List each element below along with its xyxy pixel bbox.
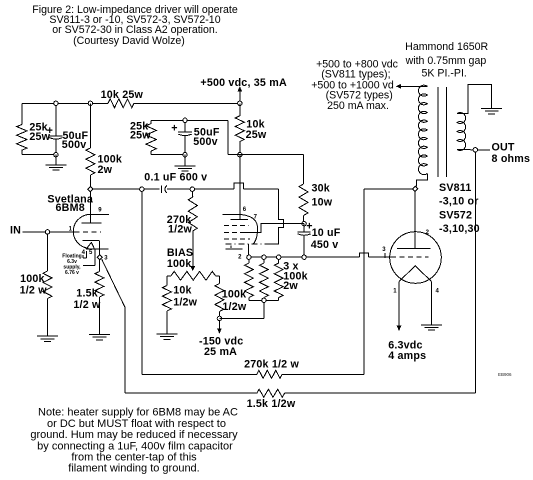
resistor 100k 2w b [263,259,265,263]
svg-text:100k: 100k [20,273,45,285]
pentode g2 dashes [224,231,245,233]
wire grid drop with jog [270,189,284,244]
node cap2 bottom [183,153,187,157]
svg-text:2w: 2w [283,280,298,292]
wire feedback left vertical [141,191,143,374]
triode grid dashes [75,231,101,233]
ground under 50uF mid [184,155,186,166]
node bias feed [190,187,194,191]
wire 3x100k bottom [249,299,279,301]
svg-text:1.5k 1/2w: 1.5k 1/2w [247,398,296,410]
capacitor 50uF 500v (left) [55,103,57,135]
svg-text:100k: 100k [222,289,247,301]
resistor 10k 1/2w [166,276,168,286]
svg-text:1.5k: 1.5k [76,287,98,299]
triode plate bar [81,222,101,224]
resistor 10k 25w horizontal [108,99,134,108]
resistor 100k 2w [89,103,91,148]
svg-text:+500 vdc, 35 mA: +500 vdc, 35 mA [200,77,287,89]
svg-text:500v: 500v [62,139,87,151]
resistor 1.5k 1/2w feedback [257,389,285,397]
resistor 270k 1/2w (bias feed) [191,191,194,197]
transformer secondary coil [457,113,466,151]
resistor 100k 1/2w (input) [47,234,49,271]
node cap1 bottom [54,153,58,157]
svg-text:+: + [171,122,177,134]
wire +500 rail right [134,102,240,104]
SV811 plate bar [397,248,430,250]
resistor 100k 2w c [278,259,280,263]
svg-text:from the center-tap of this: from the center-tap of this [71,452,197,464]
wire cathode row [249,256,359,258]
node feedback drop [140,187,144,191]
wire plate row right [364,188,413,190]
node row 4 [302,255,306,259]
svg-text:SV572: SV572 [439,209,472,221]
svg-text:Note: heater supply for 6BM8 m: Note: heater supply for 6BM8 may be AC [38,407,238,419]
svg-text:0.1 uF 600 v: 0.1 uF 600 v [144,171,207,183]
svg-text:BIAS: BIAS [167,247,193,259]
svg-text:ground. Hum may be reduced if: ground. Hum may be reduced if necessary [30,429,238,441]
svg-text:by connecting a 1uF, 400v film: by connecting a 1uF, 400v film capacitor [37,440,233,452]
node cap1 top [54,101,58,105]
node SV811 plate [413,186,418,191]
primary feed arrow [396,84,402,89]
wire +500 rail left [22,102,108,104]
node 3x100k bottom [262,298,266,302]
heater pin 4 lead [85,251,87,258]
ground under 1.5k [89,334,110,336]
triode envelope arc [73,214,92,248]
ground under 10k [156,333,177,335]
wire hop to SV811 grid [368,256,391,258]
node rail-R1 [54,101,58,105]
node row 2 [262,255,266,259]
svg-text:2: 2 [238,254,242,260]
ground under 50uF left [55,155,57,165]
pentode g1 dashes [224,224,248,226]
transformer primary coil [418,85,427,174]
wire 270k to wiper arrow [192,231,194,268]
wire 25k mid bottom [151,154,185,156]
svg-text:1/2 w: 1/2 w [73,299,101,311]
svg-text:6.76 v: 6.76 v [65,270,79,276]
svg-text:1/2w: 1/2w [168,224,192,236]
node 10uF top [302,222,306,226]
ground secondary [481,107,502,109]
svg-text:1/2w: 1/2w [222,301,246,313]
node row 3 [277,255,281,259]
svg-text:500v: 500v [193,136,218,148]
svg-text:5: 5 [89,250,93,256]
primary bottom lead [416,174,427,187]
capacitor 10uF 450v [303,224,305,232]
node row 1 [247,255,251,259]
resistor 10k 25w (vertical) [239,103,241,116]
svg-text:100k: 100k [167,258,192,270]
pentode bottom cut dash-dot [225,243,270,245]
node rail-+500 [238,101,242,105]
wire hop over feedback vertical [359,253,368,257]
svg-text:10 uF: 10 uF [312,227,341,239]
svg-text:3: 3 [104,256,108,262]
pentode envelope top cut [222,214,242,216]
svg-text:4: 4 [82,250,86,256]
wire feedback right vertical [363,189,365,374]
svg-text:5K PI.-PI.: 5K PI.-PI. [422,67,467,79]
svg-text:250 mA max.: 250 mA max. [327,100,389,112]
triode envelope top cut [89,213,109,215]
pentode g3 dashes [224,238,250,240]
pentode cathode lead pin2 [248,244,250,255]
SV811 grid dashes [391,256,429,258]
pentode plate lead pin6 [239,155,241,220]
wire cathode diagonal to output row [102,259,125,307]
triode cathode lead pin3 [98,241,100,255]
svg-text:6BM8: 6BM8 [56,202,85,214]
wire 270k row right [282,373,364,375]
SV811 filament pin4 lead [431,282,433,325]
pentode g2 lead to bypass [245,223,304,232]
wire hop over pin6 [234,183,243,189]
resistor 1.5k 1/2w (cathode) [98,260,100,272]
node OUT [473,148,477,152]
node -150 junction [217,316,221,320]
node triode plate junction [88,187,93,192]
SV811 filament pin1 lead + 6.3v arrow [398,282,400,328]
node cap2 top [183,118,187,122]
resistor 25k 25w (left bleeder) [21,103,23,124]
svg-text:2w: 2w [98,164,113,176]
svg-text:6: 6 [243,207,247,213]
resistor 30k 10w [303,155,305,184]
svg-text:270k 1/2 w: 270k 1/2 w [244,358,299,370]
wire output feedback vertical [474,152,476,393]
svg-text:3: 3 [382,247,386,253]
wire cap to hop [167,188,234,190]
pentode plate bar [231,218,248,220]
svg-text:8 ohms: 8 ohms [492,153,531,165]
resistor 25k 25w (mid) [150,120,152,123]
svg-text:7: 7 [254,214,258,220]
svg-text:25w: 25w [246,129,267,141]
svg-text:IN: IN [10,224,21,236]
wire OUT stub [478,149,491,151]
wire -150 node to 3x100k [219,317,264,319]
+500 vdc supply arrow [239,90,241,102]
node cathode pin3 [97,255,102,260]
svg-text:25 mA: 25 mA [204,346,237,358]
wire IN [22,231,74,233]
wire mid block top [151,119,228,121]
svg-text:EB906: EB906 [498,372,512,377]
svg-text:-3,10 or: -3,10 or [439,196,479,208]
ground under input 100k [37,335,58,337]
wire 1.5k row left [125,392,257,394]
wire 1.5k row right [285,392,476,394]
-150 vdc supply arrow [218,321,220,331]
svg-text:with 0.75mm gap: with 0.75mm gap [405,55,487,67]
wire 25k bottom to cap [22,154,56,156]
SV811 filament [399,266,432,282]
wire 270k row left [142,373,257,375]
secondary bottom lead [457,149,473,151]
svg-text:30k: 30k [312,183,330,195]
SV811 grid tick [384,253,386,258]
resistor 100k 2w a [248,259,250,263]
resistor 100k 1/2w (to -150) [218,276,220,284]
svg-text:-3,10,30: -3,10,30 [439,223,480,235]
resistor 270k 1/2w feedback [257,370,282,378]
svg-text:SV811: SV811 [439,182,472,194]
svg-text:10w: 10w [312,197,333,209]
pentode envelope arc [242,215,258,244]
node IN [45,230,49,234]
capacitor 0.1uF 600v [160,185,162,193]
node 10k bottom [238,153,242,157]
svg-text:OUT: OUT [492,141,515,153]
node rail-R2 [88,101,92,105]
wire hop to grid drop [243,188,278,190]
wire plate to cap 0.1uF [93,188,160,190]
svg-text:1/2 w: 1/2 w [20,285,48,297]
triode plate lead pin9 [90,191,92,222]
SV811 plate lead [414,192,416,249]
capacitor 50uF 500v (mid) [184,120,186,132]
svg-text:10k: 10k [173,284,191,296]
svg-text:4: 4 [436,289,440,295]
svg-text:1: 1 [393,289,397,295]
svg-text:(Courtesy David Wolze): (Courtesy David Wolze) [73,35,185,47]
svg-text:1/2w: 1/2w [173,296,197,308]
triode cathode [82,240,99,242]
svg-text:+: + [47,125,53,137]
pentode cathode [225,248,242,250]
SV811 envelope circle [390,232,442,284]
svg-text:10k 25w: 10k 25w [101,89,144,101]
pentode cathode tick [230,246,232,249]
wire y154 row [228,154,304,156]
triode envelope bottom cut [86,248,108,250]
svg-text:9: 9 [98,207,102,213]
svg-text:Hammond 1650R: Hammond 1650R [405,41,488,53]
svg-text:4 amps: 4 amps [388,350,426,362]
transformer core [437,87,439,177]
svg-text:filament winding to ground.: filament winding to ground. [68,463,199,475]
secondary top lead to ground [457,84,492,113]
svg-text:450 v: 450 v [311,239,339,251]
heater pin 5 lead [94,249,96,266]
ground under SV811 pin4 [421,324,442,326]
svg-text:25w: 25w [130,130,151,142]
triode heater [86,242,95,249]
svg-text:or DC but MUST float with resp: or DC but MUST float with respect to [47,418,226,430]
